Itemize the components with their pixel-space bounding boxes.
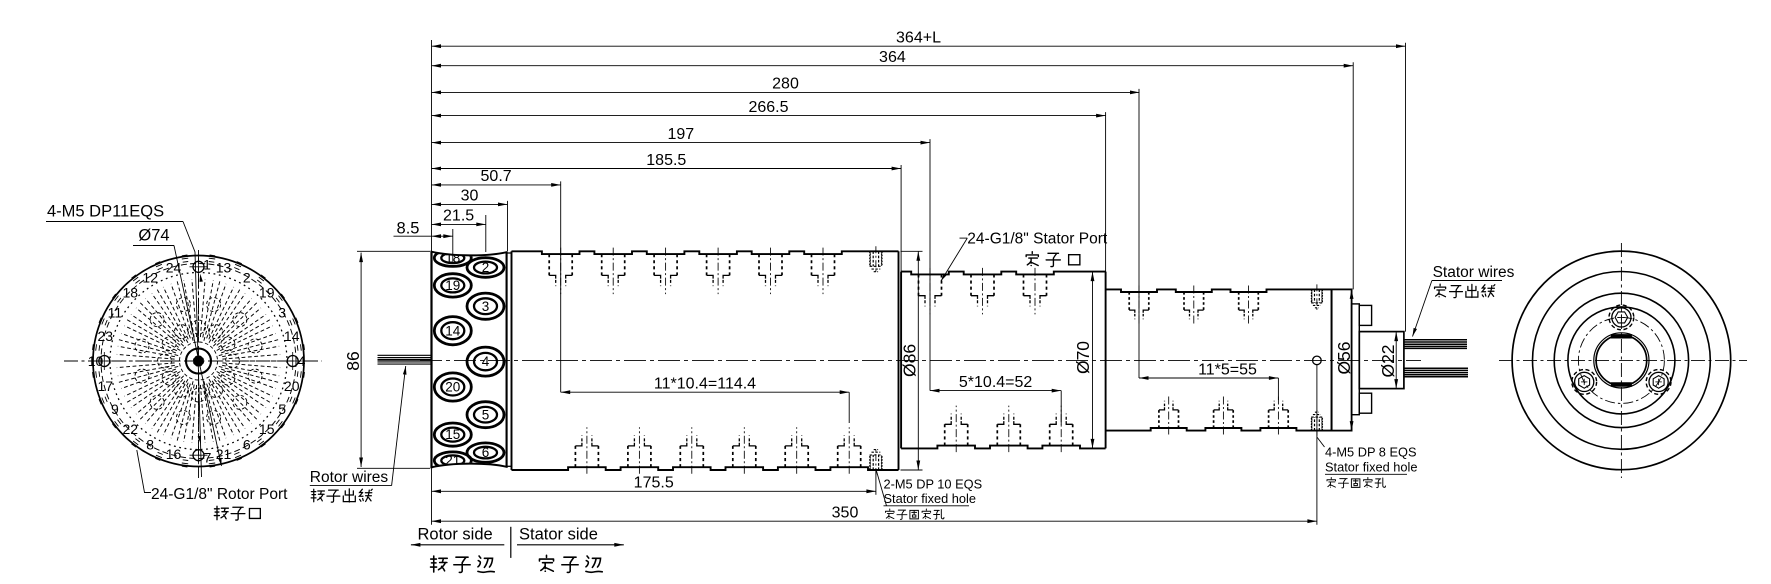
G1/8 port (top, x=718) [706, 254, 708, 275]
G1/8 port (top56, x=1194) [1183, 292, 1185, 310]
rotor wire bundle [378, 355, 432, 364]
svg-text:17: 17 [98, 378, 114, 394]
dim diam22 [1395, 332, 1397, 389]
svg-text:30: 30 [461, 188, 479, 205]
rotor end view: outer circle [93, 256, 304, 467]
rotor end view: dashed rim circle [101, 264, 296, 459]
stator end view: vertical centerline [1620, 243, 1622, 478]
stator end screw 1 [1609, 305, 1634, 330]
G1/8 port (bottom, x=744) [732, 446, 734, 467]
label rotor port chinese [214, 506, 228, 519]
svg-text:2-M5 DP 10 EQS: 2-M5 DP 10 EQS [884, 477, 983, 492]
G1/8 port (top56, x=1248) [1238, 292, 1240, 310]
main horizontal centerline [420, 359, 1421, 361]
svg-text:24-G1/8" Stator Port: 24-G1/8" Stator Port [967, 231, 1108, 248]
rotor end view: center hub circle [186, 349, 211, 374]
svg-text:21: 21 [445, 453, 460, 468]
dim 11*5=55 [1139, 377, 1278, 379]
svg-text:19: 19 [259, 285, 275, 301]
leader to M5 holes [183, 222, 202, 478]
dim 364 [432, 65, 1354, 67]
svg-text:3: 3 [278, 305, 286, 321]
G1/8 port (bottom, x=849) [837, 446, 839, 467]
svg-text:8: 8 [146, 437, 154, 453]
svg-text:23: 23 [98, 328, 114, 344]
G1/8 port (bottom56, x=1223) [1213, 410, 1215, 428]
svg-text:Stator fixed hole: Stator fixed hole [884, 491, 976, 506]
G1/8 port (top, x=613) [601, 254, 603, 275]
rotor cap outline [432, 252, 507, 468]
svg-text:11*5=55: 11*5=55 [1198, 361, 1257, 378]
G1/8 port (bottom, x=639) [627, 446, 629, 467]
stator end view: center bore with flats [1596, 335, 1647, 386]
G1/8 port (bottom, x=797) [784, 446, 786, 467]
stator port chinese [1026, 252, 1038, 266]
G1/8 port (bottom70, x=1061) [1049, 424, 1051, 445]
leader for rotor port [137, 450, 151, 493]
stator housing diam86: outline [512, 251, 899, 254]
rotor end view: center knurl blob [194, 356, 204, 366]
svg-text:19: 19 [445, 278, 460, 293]
svg-text:4-M5 DP11EQS: 4-M5 DP11EQS [47, 203, 164, 221]
svg-text:364+L: 364+L [896, 30, 941, 47]
svg-text:364: 364 [879, 49, 906, 66]
dim 8.5 [394, 235, 453, 237]
dim 86 vertical [360, 253, 362, 467]
end flange plate [1332, 289, 1352, 430]
stator wire bundles [1404, 340, 1468, 377]
svg-text:5*10.4=52: 5*10.4=52 [959, 374, 1033, 391]
svg-text:21.5: 21.5 [443, 208, 474, 225]
svg-text:2: 2 [482, 260, 490, 275]
top connector block [1359, 305, 1371, 325]
G1/8 port (bottom70, x=1009) [996, 424, 998, 445]
dim 266.5 [432, 115, 1106, 117]
svg-text:Stator wires: Stator wires [1433, 264, 1515, 281]
dim 185.5 [432, 168, 902, 170]
svg-text:14: 14 [445, 323, 461, 338]
G1/8 port (top, x=823) [811, 254, 813, 275]
connector plate [1352, 304, 1360, 415]
dim 30 [432, 203, 508, 205]
stator end view: horizontal centerline [1499, 359, 1747, 361]
dim diam70 vertical [1092, 272, 1094, 449]
stator housing diam70: outline [901, 272, 1106, 275]
rotor end view: rim thread tick marks [93, 255, 305, 467]
dim 11*10.4=114.4 [561, 391, 850, 393]
rotor end view: 4x M5 screw holes on bolt circle [95, 258, 301, 464]
svg-text:6: 6 [482, 445, 490, 460]
dim 21.5 [432, 223, 486, 225]
svg-text:280: 280 [772, 76, 799, 93]
diam22 output stub [1359, 332, 1404, 389]
svg-text:5: 5 [482, 407, 490, 422]
svg-text:6: 6 [243, 437, 251, 453]
svg-text:266.5: 266.5 [748, 99, 788, 116]
dim 280 [432, 91, 1140, 93]
svg-text:350: 350 [832, 505, 859, 522]
2-M5 stator fixed holes on diam86 [870, 251, 871, 265]
G1/8 port (top70, x=930) [918, 274, 920, 295]
svg-text:197: 197 [667, 126, 694, 143]
G1/8 port (top56, x=1139) [1128, 292, 1130, 310]
svg-text:Ø70: Ø70 [1073, 341, 1093, 374]
svg-text:Rotor wires: Rotor wires [310, 469, 389, 486]
rotor end view: dotted port circle [110, 273, 287, 450]
G1/8 port (bottom, x=692) [679, 446, 681, 467]
rotor end view: port numbers 1-24 [88, 256, 306, 465]
dim 350 [432, 520, 1317, 522]
svg-text:185.5: 185.5 [646, 152, 686, 169]
svg-text:50.7: 50.7 [481, 168, 512, 185]
G1/8 port (bottom70, x=956) [944, 424, 946, 445]
G1/8 port (top70, x=1035) [1023, 274, 1025, 295]
svg-text:86: 86 [343, 351, 363, 370]
stator housing diam56: outline [1106, 289, 1332, 292]
svg-text:8.5: 8.5 [397, 220, 420, 238]
svg-text:16: 16 [166, 446, 182, 462]
rotor end view: vertical centerline [198, 250, 200, 478]
svg-text:2: 2 [243, 269, 251, 285]
stator end view: center bore outer [1594, 333, 1649, 388]
4-M5 stator fixed holes on flange [1311, 289, 1312, 302]
svg-text:22: 22 [123, 421, 139, 437]
svg-text:5: 5 [278, 401, 286, 417]
svg-text:11: 11 [108, 305, 123, 321]
stator end view: outer circle [1512, 251, 1731, 470]
dim 50.7 [432, 184, 561, 186]
stator end view: circle 2 [1533, 272, 1711, 450]
rotor end view: radial dashed spokes [115, 277, 283, 445]
svg-text:3: 3 [482, 299, 490, 314]
rotor end view: inner dashed port circles [135, 298, 262, 425]
bottom connector block [1359, 393, 1371, 413]
svg-text:13: 13 [216, 260, 232, 276]
G1/8 port (top, x=770) [758, 254, 760, 275]
dim 197 [432, 142, 931, 144]
stator end screw 3 [1572, 370, 1597, 395]
G1/8 port (bottom56, x=1278) [1268, 410, 1270, 428]
svg-text:9: 9 [111, 401, 119, 417]
rotor end view: horizontal centerline [64, 360, 322, 362]
G1/8 port (top70, x=982) [970, 274, 972, 295]
svg-text:Ø86: Ø86 [900, 344, 920, 377]
dim diam56 on flange edge [1351, 289, 1353, 430]
svg-text:1: 1 [203, 256, 211, 272]
rotor end view: center dashed circle [180, 342, 218, 380]
leader for diameter 74 [174, 246, 222, 467]
svg-text:Ø56: Ø56 [1334, 341, 1354, 374]
dim 364+L [432, 45, 1406, 47]
G1/8 port (bottom, x=587) [574, 446, 576, 467]
stator end view: bolt circle (dash-dot) [1578, 317, 1664, 403]
svg-text:4: 4 [482, 354, 490, 369]
spacer ring [507, 253, 512, 466]
G1/8 port (bottom56, x=1169) [1158, 410, 1160, 428]
extension lines [432, 40, 1406, 525]
svg-text:Ø74: Ø74 [138, 227, 169, 245]
svg-text:15: 15 [259, 421, 275, 437]
svg-text:20: 20 [284, 378, 300, 394]
svg-text:14: 14 [284, 328, 300, 344]
stator end screw 2 [1646, 370, 1671, 395]
svg-text:Stator side: Stator side [519, 526, 598, 544]
G1/8 port (top, x=561) [548, 254, 550, 275]
dim diam86 vertical [917, 251, 919, 470]
svg-text:20: 20 [445, 380, 460, 395]
svg-text:Ø22: Ø22 [1378, 344, 1398, 377]
svg-text:12: 12 [142, 269, 158, 285]
svg-text:Rotor side: Rotor side [418, 526, 493, 544]
dim 5*10.4=52 [930, 390, 1061, 392]
svg-text:7: 7 [204, 449, 212, 465]
stator end view: circle 3 [1554, 293, 1688, 427]
G1/8 port (top, x=666) [653, 254, 655, 275]
svg-text:11*10.4=114.4: 11*10.4=114.4 [654, 376, 756, 393]
stator end view: boss circle [1568, 307, 1675, 414]
svg-text:175.5: 175.5 [634, 475, 674, 492]
svg-text:4-M5 DP 8 EQS: 4-M5 DP 8 EQS [1325, 445, 1417, 460]
svg-text:Stator fixed hole: Stator fixed hole [1325, 460, 1417, 475]
svg-text:18: 18 [123, 285, 139, 301]
flange center hole [1313, 356, 1322, 365]
svg-text:24-G1/8" Rotor Port: 24-G1/8" Rotor Port [151, 486, 288, 503]
svg-text:15: 15 [445, 427, 460, 442]
dim 175.5 [432, 490, 876, 492]
